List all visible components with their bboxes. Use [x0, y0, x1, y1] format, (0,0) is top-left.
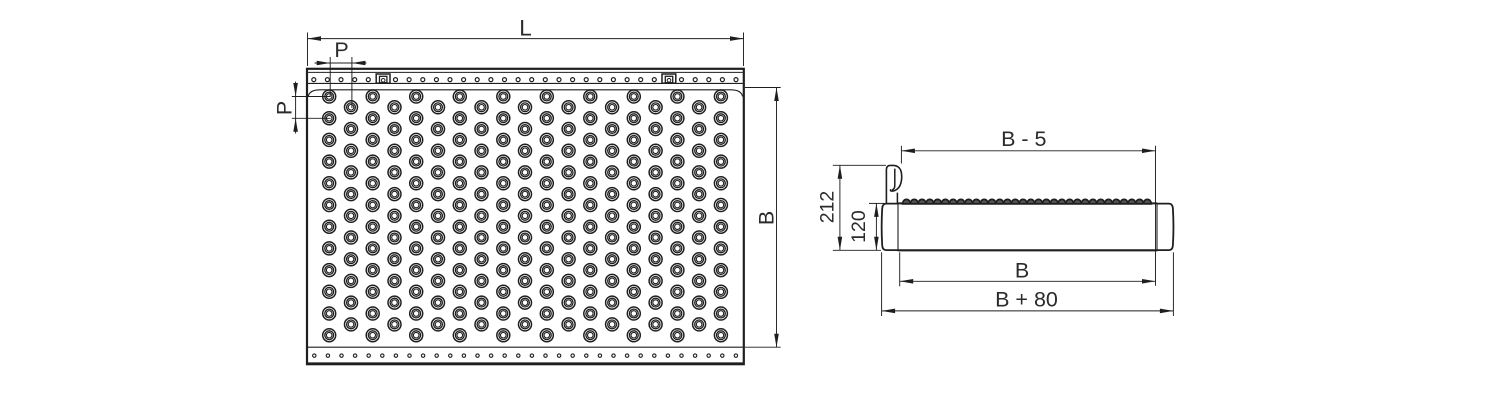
mounting clip 1: [376, 74, 390, 83]
tread surface bend line: [308, 90, 742, 97]
tread body (side view): [898, 202, 1157, 204]
dimension 212 line: [839, 165, 841, 250]
dimension B - 5 line: [901, 150, 1155, 152]
top hem rivet holes: [312, 78, 738, 82]
dimension B + 80 extension lines: [881, 252, 883, 316]
dimension L line: [308, 38, 744, 40]
svg-text:B: B: [754, 211, 778, 225]
svg-text:P: P: [334, 38, 348, 62]
dimension B (plate) line: [776, 88, 778, 348]
svg-text:120: 120: [848, 210, 870, 243]
svg-text:B: B: [1015, 259, 1029, 283]
bottom hem top line: [308, 346, 743, 348]
dimension P (horizontal pitch) extension lines: [329, 57, 331, 97]
top hem inner line: [308, 71, 743, 73]
right end cap: [1157, 204, 1173, 251]
plate outline (front view): [307, 69, 744, 364]
dimension 212 extension lines: [833, 164, 886, 166]
left end cap: [882, 204, 898, 251]
svg-text:B - 5: B - 5: [1001, 127, 1046, 151]
bottom hem rivet holes: [313, 354, 738, 357]
dimension 120 extension line: [869, 202, 885, 204]
serrated tread surface: [903, 199, 1152, 203]
svg-text:B + 80: B + 80: [995, 288, 1058, 312]
dimension B (side) line: [900, 280, 1156, 282]
dimple perforation grid: [323, 90, 728, 342]
dimension B - 5 extension lines: [900, 146, 902, 164]
top hem bottom line: [308, 82, 743, 84]
dimension 120 line: [875, 203, 877, 250]
dimension B + 80 line: [882, 310, 1174, 312]
dimension P (vertical pitch) extension lines: [292, 96, 331, 98]
mounting clip 2: [662, 74, 676, 83]
bottom edge thick line: [307, 362, 744, 364]
svg-text:212: 212: [816, 191, 838, 224]
dimension P (horizontal) line with outside arrows: [315, 62, 367, 64]
dimension L extension lines: [307, 33, 309, 67]
svg-text:L: L: [519, 15, 532, 40]
dimension P (vertical) line with outside arrows: [295, 82, 297, 134]
front nosing hook tab: [886, 165, 901, 203]
dimension B (side) extension line: [899, 252, 901, 286]
svg-text:P: P: [273, 101, 297, 115]
dimension B (plate) extension lines: [745, 87, 781, 89]
